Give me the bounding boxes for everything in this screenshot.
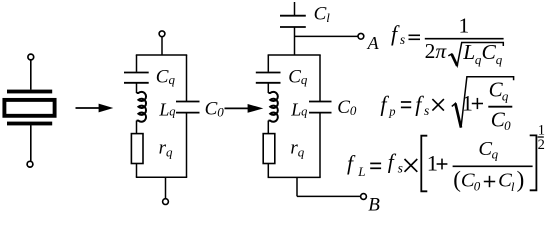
svg-text:1: 1 xyxy=(427,151,438,176)
wire xyxy=(267,83,269,93)
capacitor C0 (middle circuit) xyxy=(176,101,200,103)
svg-text:s: s xyxy=(398,161,403,176)
svg-text:q: q xyxy=(169,105,175,119)
fraction bar xyxy=(488,106,512,108)
svg-text:C: C xyxy=(482,40,497,64)
svg-text:p: p xyxy=(388,105,395,119)
svg-text:0: 0 xyxy=(504,118,511,133)
multiplication sign xyxy=(405,159,418,172)
multiplication sign xyxy=(432,99,444,111)
arrow (crystal to equivalent circuit) xyxy=(76,107,101,109)
wire xyxy=(136,83,138,93)
svg-text:L: L xyxy=(158,99,169,119)
equals sign xyxy=(401,101,411,103)
svg-text:): ) xyxy=(517,167,525,192)
crystal Y1 bottom terminal xyxy=(27,161,33,167)
right bracket xyxy=(530,135,537,190)
capacitor Cq xyxy=(124,72,149,74)
wire right branch upper xyxy=(186,55,188,101)
svg-text:q: q xyxy=(502,88,509,103)
svg-text:2π: 2π xyxy=(425,39,448,63)
wire right branch upper xyxy=(319,55,321,101)
inductor Lq (right circuit) xyxy=(268,92,277,122)
fraction bar xyxy=(453,165,533,167)
capacitor C1 xyxy=(280,15,306,17)
resistor rq (right circuit) xyxy=(263,134,275,164)
wire bottom of box xyxy=(136,176,187,178)
wire xyxy=(136,164,138,178)
svg-text:1: 1 xyxy=(462,91,473,116)
crystal bottom electrode plate xyxy=(7,122,52,126)
svg-text:(: ( xyxy=(453,167,461,192)
crystal top electrode plate xyxy=(7,90,52,94)
capacitor C0 (right circuit) xyxy=(309,101,332,103)
terminal A xyxy=(358,33,364,39)
wire to terminal B xyxy=(297,195,361,197)
inductor Lq xyxy=(137,92,146,122)
equals sign xyxy=(409,34,421,36)
arrow (to loaded circuit) xyxy=(225,107,250,109)
wire xyxy=(161,37,163,55)
wire bottom stub xyxy=(165,177,167,199)
svg-text:q: q xyxy=(496,52,503,67)
svg-text:0: 0 xyxy=(474,178,481,193)
crystal Y1 top terminal xyxy=(28,54,34,60)
capacitor Cq (right circuit) xyxy=(256,72,281,74)
wire right branch lower xyxy=(319,113,321,177)
svg-text:L: L xyxy=(462,40,475,64)
wire left branch upper xyxy=(136,55,138,72)
svg-text:C: C xyxy=(478,138,492,160)
wire top of box xyxy=(136,54,187,56)
equals sign xyxy=(370,162,381,164)
wire xyxy=(136,121,138,134)
svg-text:L: L xyxy=(290,99,301,119)
wire right branch lower xyxy=(186,113,188,177)
wire xyxy=(30,125,32,161)
svg-text:L: L xyxy=(357,164,365,179)
svg-text:q: q xyxy=(492,147,499,162)
svg-text:A: A xyxy=(367,33,380,53)
left bracket xyxy=(421,136,427,192)
capacitor C1 top stub xyxy=(294,2,296,15)
svg-text:2: 2 xyxy=(538,137,545,153)
wire xyxy=(267,121,269,134)
svg-text:s: s xyxy=(424,103,429,118)
radical sign (fp) xyxy=(452,77,514,128)
right circuit: top wire of box xyxy=(268,54,321,56)
fraction bar xyxy=(425,38,504,40)
resistor rq xyxy=(131,134,143,164)
wire xyxy=(267,164,269,178)
svg-text:l: l xyxy=(511,179,515,194)
wire to terminal A xyxy=(295,35,359,37)
wire from C1 down to box xyxy=(294,27,296,55)
svg-text:1: 1 xyxy=(459,14,470,38)
crystal quartz body xyxy=(4,100,54,116)
svg-text:B: B xyxy=(368,194,380,215)
wire left branch upper xyxy=(267,55,269,72)
wire xyxy=(30,60,32,90)
svg-text:s: s xyxy=(400,32,405,47)
radical sign xyxy=(448,43,503,66)
middle circuit: bottom terminal xyxy=(163,199,169,205)
wire bottom of box xyxy=(268,176,321,178)
terminal B xyxy=(361,194,367,200)
middle circuit: top terminal xyxy=(159,31,165,37)
wire bottom stub xyxy=(296,177,298,196)
svg-text:q: q xyxy=(301,105,307,119)
